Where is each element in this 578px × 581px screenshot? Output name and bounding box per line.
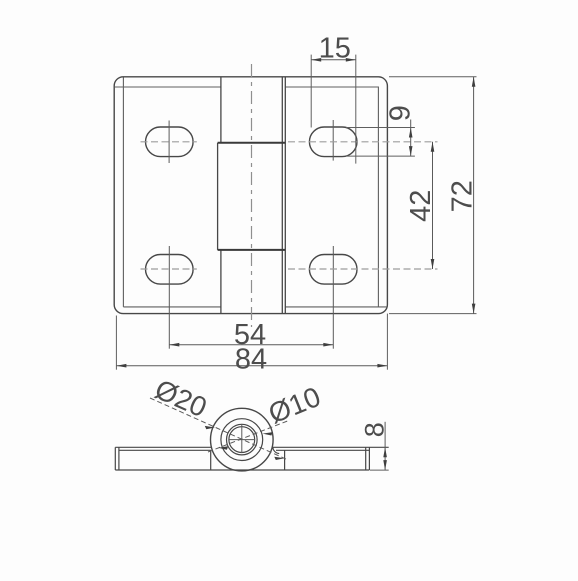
dimension 84 extension lines bbox=[116, 314, 387, 370]
side view right leaf plate bbox=[273, 447, 389, 470]
knuckle outer circle (O20) bbox=[211, 408, 274, 471]
dimension 54 line bbox=[169, 343, 333, 347]
hinge plate outer outline (top view) bbox=[114, 77, 387, 314]
svg-text:15: 15 bbox=[319, 32, 351, 64]
slot top-left bbox=[145, 127, 193, 157]
knuckle curl circle bbox=[221, 419, 263, 461]
slot horizontal dashed centerlines bbox=[141, 142, 438, 269]
svg-text:42: 42 bbox=[405, 190, 437, 222]
slot bottom-left bbox=[146, 255, 194, 285]
svg-text:84: 84 bbox=[235, 343, 267, 375]
svg-text:9: 9 bbox=[384, 105, 416, 121]
inner offset edge lines (top view) bbox=[115, 78, 387, 307]
svg-text:8: 8 bbox=[359, 422, 389, 437]
dimension 72 line bbox=[472, 77, 476, 314]
dimension 8 line bbox=[383, 422, 387, 470]
dimension 15 line bbox=[311, 58, 356, 62]
side view bottom edge bbox=[115, 469, 369, 471]
side view left leaf plate bbox=[115, 447, 211, 470]
fillet at right knuckle junction bbox=[273, 447, 279, 453]
slot top-right bbox=[309, 127, 357, 157]
knuckle column edges (top view) bbox=[218, 77, 286, 314]
hinge pin centerline (dashed vertical) bbox=[251, 64, 253, 327]
knuckle separator joints bbox=[218, 143, 286, 250]
dimension 42 line bbox=[431, 142, 435, 269]
svg-text:72: 72 bbox=[446, 180, 478, 212]
leader line O20 bbox=[150, 398, 287, 460]
slot vertical crosshairs bbox=[169, 120, 333, 349]
dimension 84 line bbox=[116, 364, 387, 368]
dimension 8 extension line bbox=[370, 469, 389, 471]
slot bottom-right bbox=[309, 255, 357, 285]
leader line O10 bbox=[208, 420, 290, 452]
pin hole inner circle (O10) bbox=[229, 427, 255, 453]
dimension 15 extension lines bbox=[311, 55, 356, 164]
knuckle crosshair bbox=[228, 424, 255, 453]
dimension 9 line bbox=[409, 120, 413, 157]
dimension 9 extension lines bbox=[346, 128, 415, 157]
dimension 72 extension lines bbox=[389, 77, 477, 314]
pin hole outer circle bbox=[227, 424, 258, 455]
